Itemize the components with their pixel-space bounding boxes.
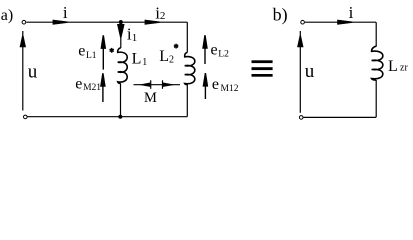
node junction bottom xyxy=(118,115,122,119)
equivalence sign xyxy=(252,60,273,76)
voltage arrow u (left circuit) xyxy=(20,36,26,48)
svg-text:u: u xyxy=(305,61,315,82)
wire left edge (circuit b) xyxy=(299,31,301,113)
svg-text:b): b) xyxy=(273,5,288,26)
svg-text:u: u xyxy=(28,62,38,83)
inductor L1 xyxy=(118,48,128,84)
wire bottom (left circuit) xyxy=(28,116,188,118)
svg-text:L1: L1 xyxy=(86,51,97,61)
current arrow i2 xyxy=(145,20,160,25)
node junction top xyxy=(119,20,123,24)
svg-text:M: M xyxy=(144,90,157,106)
svg-text:i: i xyxy=(349,3,354,22)
terminal circle top-left (node) xyxy=(22,20,26,24)
current arrow i xyxy=(53,20,68,25)
svg-text:a): a) xyxy=(1,7,13,24)
terminal circle bottom-left (node) xyxy=(24,115,28,119)
svg-text:zr: zr xyxy=(400,63,408,74)
wire right edge lower (left circuit) xyxy=(186,84,188,116)
inductor Lzr xyxy=(372,46,383,80)
svg-text:L2: L2 xyxy=(218,50,229,60)
emf arrow eM21 xyxy=(100,73,106,102)
svg-text:e: e xyxy=(75,75,82,92)
svg-text:M21: M21 xyxy=(83,83,101,93)
mutual arrow left tick xyxy=(150,80,152,89)
wire top (left circuit) xyxy=(26,21,187,23)
current arrow i1 xyxy=(117,24,125,38)
terminal circle top-left (circuit b) xyxy=(301,20,305,24)
inductor L2 xyxy=(185,52,195,84)
svg-text:i: i xyxy=(63,3,68,22)
terminal circle bottom-left (circuit b) xyxy=(299,116,303,120)
wire middle branch lower xyxy=(120,83,122,116)
asterisk dot mark L2 xyxy=(174,44,178,49)
asterisk dot mark L1 xyxy=(110,48,114,53)
current arrow i (circuit b) xyxy=(337,20,352,25)
voltage arrow u (circuit b) xyxy=(297,36,303,48)
wire right edge lower (circuit b) xyxy=(375,80,377,117)
svg-text:e: e xyxy=(211,41,218,58)
emf arrow eL1 xyxy=(101,35,107,69)
svg-text:1: 1 xyxy=(132,32,138,44)
svg-text:M12: M12 xyxy=(221,84,239,94)
svg-text:L: L xyxy=(388,58,398,75)
wire bottom (circuit b) xyxy=(303,116,376,118)
svg-text:e: e xyxy=(212,76,219,93)
wire middle branch upper xyxy=(120,22,122,48)
wire top (circuit b) xyxy=(305,21,376,23)
mutual arrow right head xyxy=(163,83,175,87)
emf arrow eM12 xyxy=(203,73,209,99)
svg-text:L: L xyxy=(132,50,142,67)
wire left edge (left circuit) xyxy=(22,31,24,111)
svg-text:e: e xyxy=(78,42,85,59)
mutual coupling arrow M shaft xyxy=(134,84,181,86)
svg-text:2: 2 xyxy=(160,10,166,22)
svg-text:2: 2 xyxy=(169,54,174,65)
svg-text:1: 1 xyxy=(142,57,147,68)
mutual arrow right tick xyxy=(162,80,164,89)
wire right edge upper (left circuit) xyxy=(186,22,188,52)
wire right edge upper (circuit b) xyxy=(375,22,377,46)
emf arrow eL2 xyxy=(202,35,208,64)
mutual arrow left head xyxy=(139,83,151,87)
svg-text:L: L xyxy=(159,48,169,65)
